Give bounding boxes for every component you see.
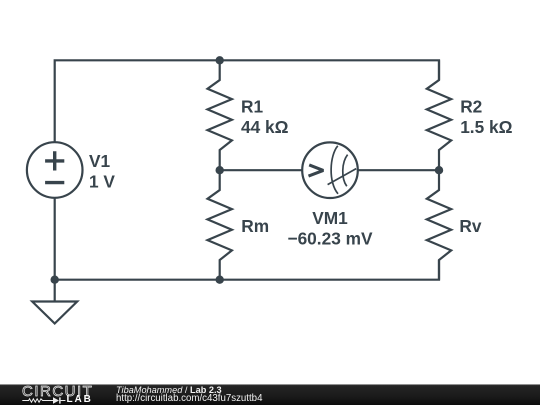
svg-text:R2: R2 bbox=[460, 96, 482, 116]
svg-text:Rm: Rm bbox=[241, 216, 269, 236]
svg-text:1.5 kΩ: 1.5 kΩ bbox=[460, 117, 512, 137]
svg-text:44 kΩ: 44 kΩ bbox=[241, 117, 289, 137]
svg-text:V1: V1 bbox=[89, 151, 111, 171]
svg-text:VM1: VM1 bbox=[312, 208, 348, 228]
svg-text:R1: R1 bbox=[241, 96, 263, 116]
svg-text:Rv: Rv bbox=[459, 216, 481, 236]
svg-text:1 V: 1 V bbox=[89, 172, 115, 192]
svg-text:−60.23 mV: −60.23 mV bbox=[287, 228, 373, 248]
